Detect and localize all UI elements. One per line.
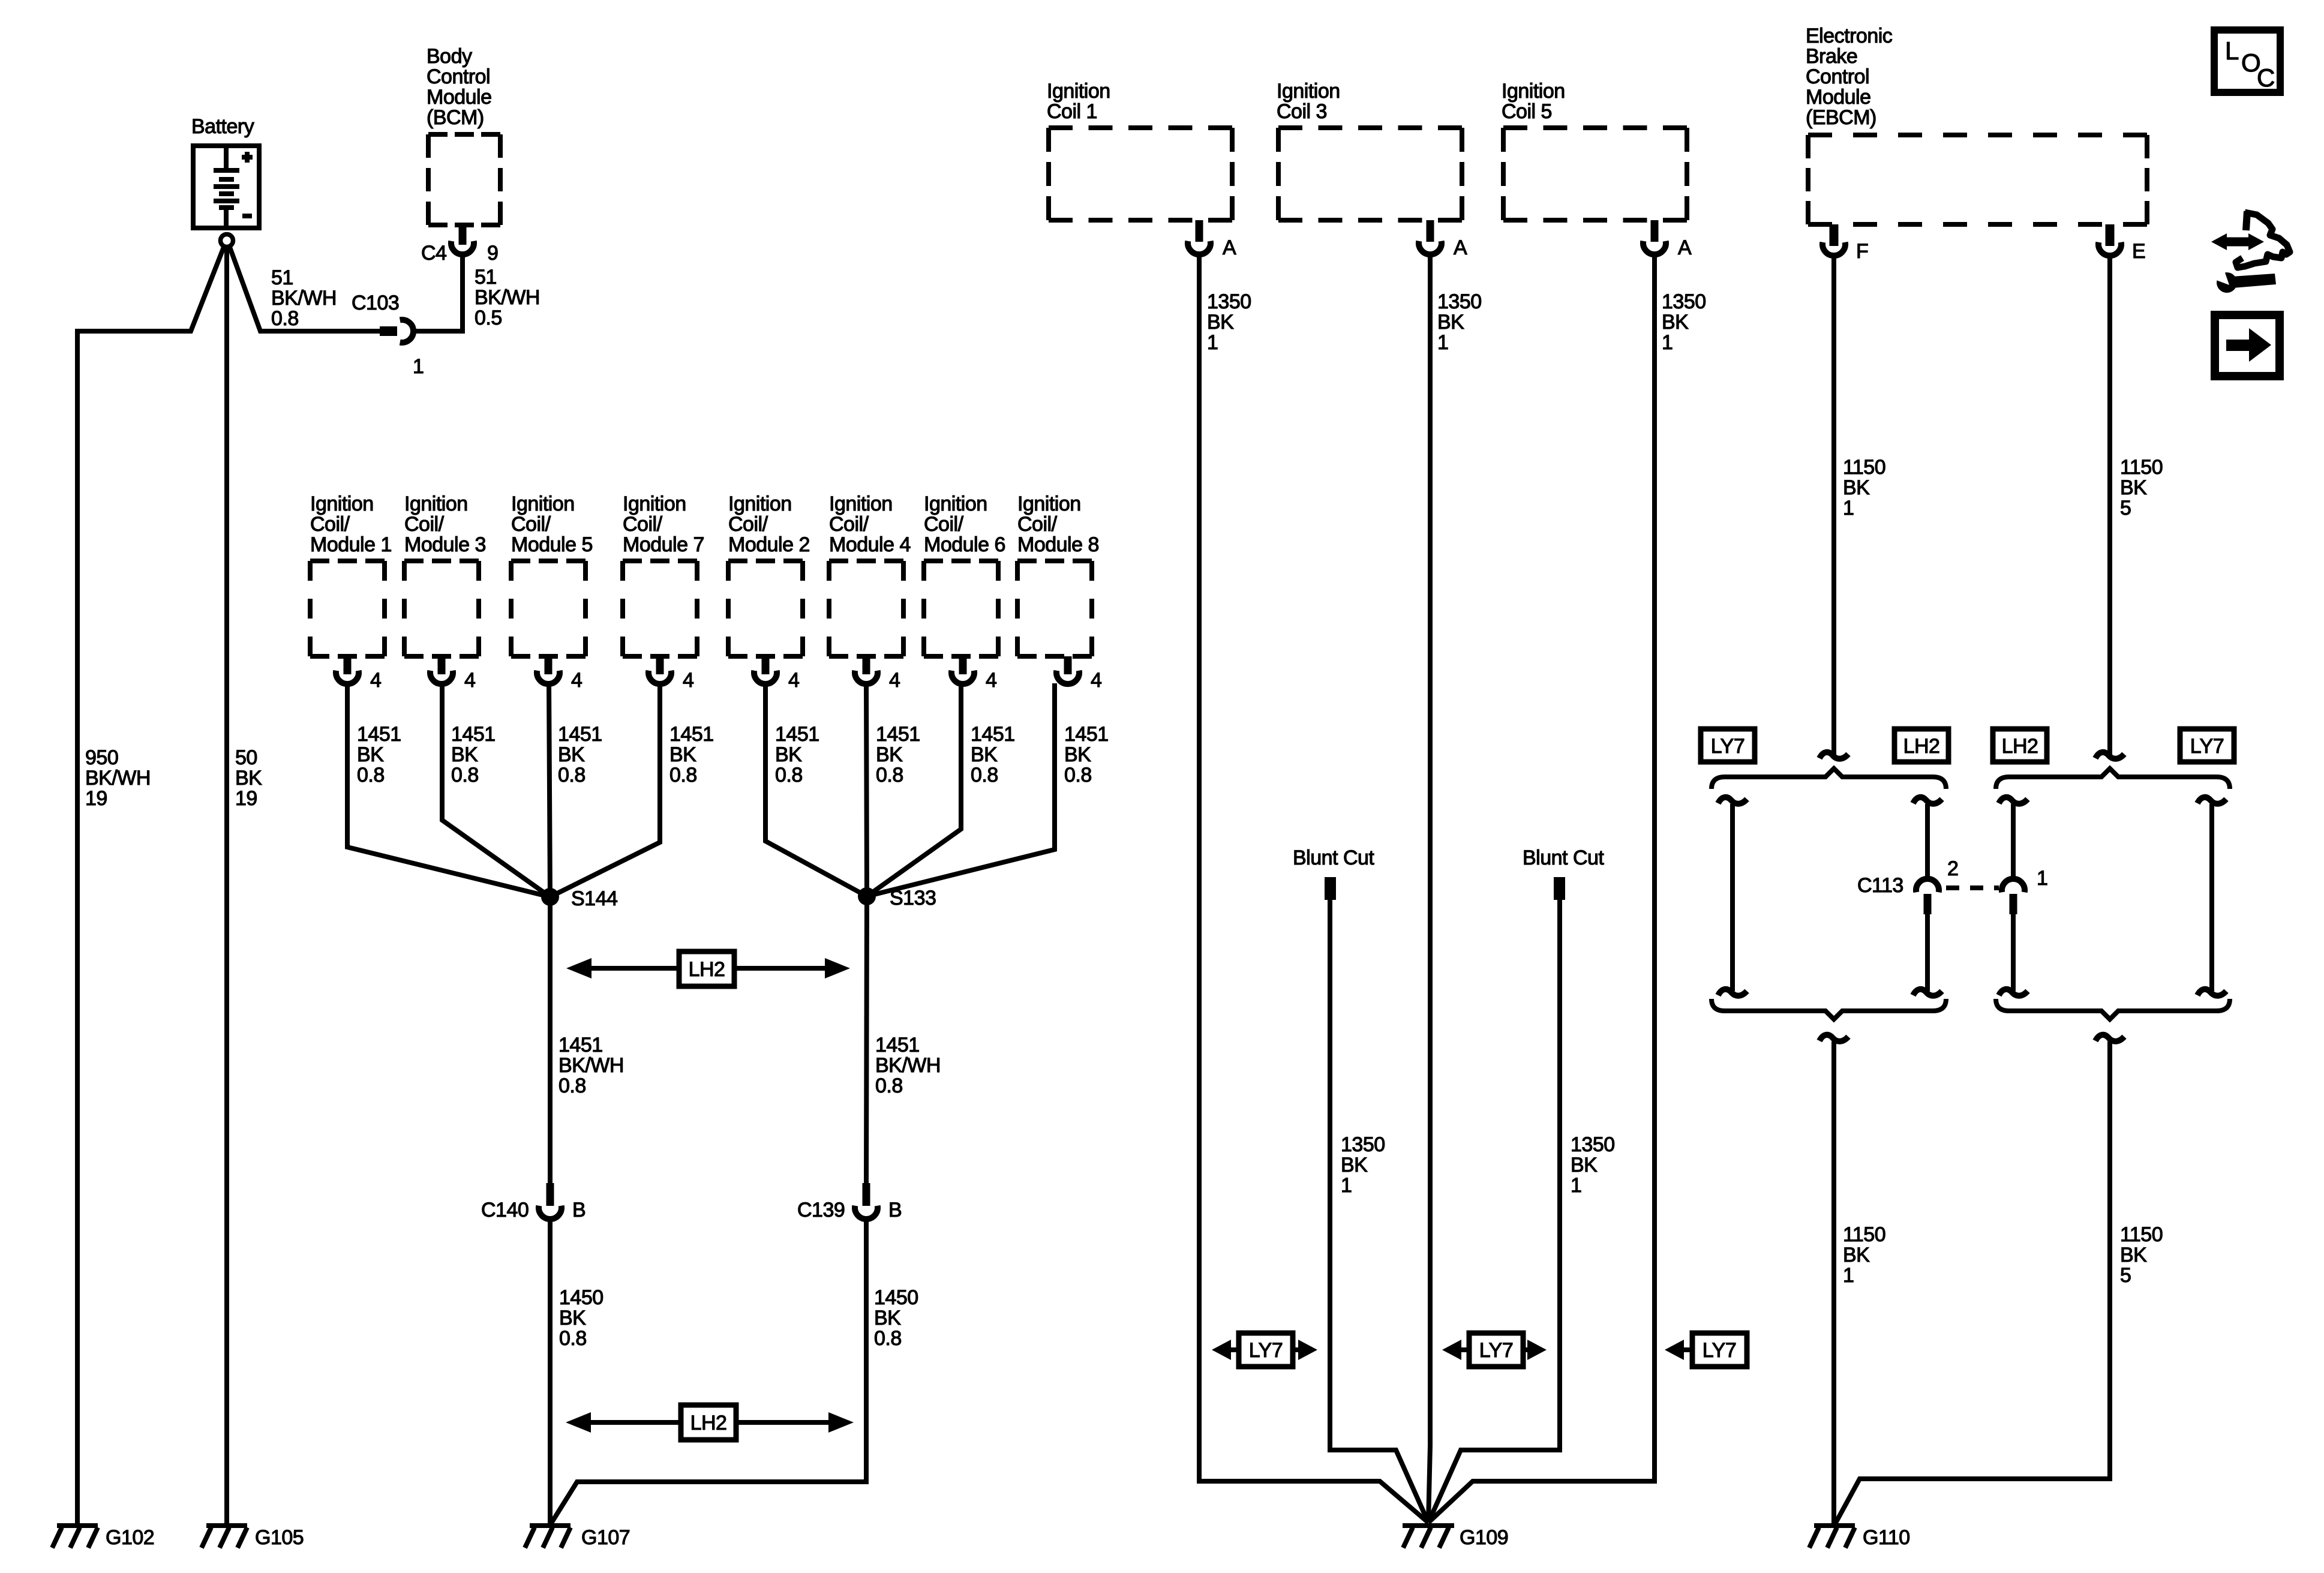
svg-text:Ignition: Ignition <box>1277 80 1340 103</box>
svg-text:1451: 1451 <box>971 723 1015 746</box>
svg-text:BK: BK <box>559 1307 586 1329</box>
wire coil 5 to G109 <box>1428 254 1655 1523</box>
svg-text:Body: Body <box>427 45 472 68</box>
label circuit 1451 BK 0.8 module 2 <box>775 723 819 786</box>
svg-text:1451: 1451 <box>451 723 496 746</box>
svg-text:A: A <box>1223 236 1236 259</box>
svg-text:C140: C140 <box>481 1199 529 1221</box>
svg-text:1451: 1451 <box>357 723 401 746</box>
svg-text:BK: BK <box>357 743 384 766</box>
LOC reference box <box>2214 30 2280 92</box>
pin 4 of module 6 <box>951 656 996 692</box>
label circuit 1150 BK 1 upper <box>1843 456 1885 520</box>
svg-text:1350: 1350 <box>1662 290 1706 313</box>
svg-text:G107: G107 <box>581 1526 630 1549</box>
svg-text:Ignition: Ignition <box>1502 80 1565 103</box>
svg-text:4: 4 <box>683 669 693 692</box>
svg-text:1450: 1450 <box>874 1286 918 1309</box>
svg-text:4: 4 <box>370 669 381 692</box>
svg-text:Module 4: Module 4 <box>829 533 911 556</box>
svg-text:BK: BK <box>1843 476 1870 499</box>
option brace top left group <box>1712 769 1946 789</box>
svg-text:BK: BK <box>1662 311 1689 334</box>
svg-text:LY7: LY7 <box>1711 735 1744 758</box>
wire S144 to C140 <box>548 897 553 1183</box>
svg-text:4: 4 <box>571 669 582 692</box>
svg-text:Module 7: Module 7 <box>623 533 704 556</box>
svg-text:C103: C103 <box>352 292 399 314</box>
wire coil 3 to G109 <box>1428 254 1430 1523</box>
battery positive terminal node <box>221 235 233 247</box>
svg-text:0.8: 0.8 <box>669 764 697 786</box>
svg-text:1150: 1150 <box>1843 1223 1885 1246</box>
pin 4 of module 3 <box>430 656 475 692</box>
svg-text:1: 1 <box>1341 1174 1352 1197</box>
svg-text:C113: C113 <box>1857 874 1903 897</box>
wire module 2 to S133 <box>765 683 867 896</box>
svg-text:1350: 1350 <box>1571 1133 1615 1156</box>
svg-text:BK: BK <box>669 743 696 766</box>
svg-text:19: 19 <box>85 787 107 810</box>
connector C113 pin 2 <box>1857 857 1958 914</box>
ground G110 <box>1809 1526 1910 1549</box>
svg-text:0.8: 0.8 <box>559 1074 586 1097</box>
svg-text:Coil/: Coil/ <box>924 513 964 536</box>
svg-text:Ignition: Ignition <box>1047 80 1110 103</box>
svg-text:Control: Control <box>427 65 490 88</box>
ignition coil 5 <box>1502 80 1687 220</box>
svg-text:0.8: 0.8 <box>876 764 903 786</box>
wire S133 to C139 <box>866 896 867 1183</box>
pin 4 of module 8 <box>1056 656 1101 692</box>
svg-text:1350: 1350 <box>1207 290 1251 313</box>
svg-text:1451: 1451 <box>669 723 714 746</box>
wire EBCM pin E to option bracket <box>2107 255 2112 755</box>
label circuit 1451 BK/WH 0.8 left <box>559 1034 624 1097</box>
svg-text:BK: BK <box>2120 1244 2147 1266</box>
squiggle below left bracket <box>1819 1035 1848 1041</box>
svg-text:Module: Module <box>427 86 492 109</box>
svg-text:1: 1 <box>2037 867 2047 890</box>
svg-text:A: A <box>1678 236 1692 259</box>
option brace top right group <box>1996 769 2230 789</box>
svg-text:Coil/: Coil/ <box>404 513 445 536</box>
svg-text:Ignition: Ignition <box>728 493 792 515</box>
svg-text:Module 3: Module 3 <box>404 533 486 556</box>
wire module 3 to S144 <box>442 683 550 897</box>
label circuit 1451 BK 0.8 module 7 <box>669 723 714 786</box>
label circuit 950 BK/WH 19 <box>85 746 151 810</box>
svg-text:Coil 1: Coil 1 <box>1047 100 1097 123</box>
electronic brake control module EBCM <box>1806 25 2147 224</box>
engine code box LH2 right group <box>1993 729 2047 762</box>
svg-text:1451: 1451 <box>558 723 602 746</box>
svg-text:BK: BK <box>558 743 585 766</box>
svg-text:L: L <box>2225 37 2239 65</box>
forward reference arrow box <box>2215 315 2280 376</box>
svg-text:S144: S144 <box>571 887 617 910</box>
svg-text:LH2: LH2 <box>1903 735 1940 758</box>
svg-text:19: 19 <box>235 787 257 810</box>
svg-text:LH2: LH2 <box>690 1412 727 1434</box>
svg-text:BK/WH: BK/WH <box>559 1054 624 1077</box>
connector C139 pin B <box>797 1183 902 1221</box>
splice S144 <box>541 887 617 910</box>
svg-text:4: 4 <box>986 669 996 692</box>
pin A of ignition coil 5 <box>1643 220 1692 259</box>
svg-text:1: 1 <box>1662 331 1673 354</box>
engine code box LH2 left group <box>1894 729 1948 762</box>
pin 4 of module 1 <box>336 656 381 692</box>
svg-text:1150: 1150 <box>1843 456 1885 479</box>
diagnostic double arrow and wrench icon <box>2208 211 2290 293</box>
wire battery to left ground branch <box>77 247 224 1524</box>
svg-text:Electronic: Electronic <box>1806 25 1893 47</box>
label circuit 1451 BK 0.8 module 6 <box>971 723 1015 786</box>
svg-text:4: 4 <box>889 669 900 692</box>
svg-text:(BCM): (BCM) <box>427 106 484 129</box>
svg-text:0.8: 0.8 <box>775 764 803 786</box>
svg-text:1150: 1150 <box>2120 1223 2163 1246</box>
option brace bottom left group <box>1712 999 1946 1019</box>
svg-text:Ignition: Ignition <box>310 493 374 515</box>
svg-text:LH2: LH2 <box>2002 735 2038 758</box>
squiggle below right bracket <box>2095 1035 2124 1041</box>
svg-text:Control: Control <box>1806 65 1869 88</box>
svg-text:F: F <box>1856 240 1868 263</box>
wire below C113 pin 2 <box>1913 914 1942 996</box>
svg-text:2: 2 <box>1947 857 1958 880</box>
pin 4 of module 7 <box>648 656 693 692</box>
dashed mating line C113 <box>1946 885 1999 890</box>
LH2 engine application arrow lower <box>566 1405 854 1440</box>
svg-text:1: 1 <box>1437 331 1448 354</box>
svg-text:G110: G110 <box>1863 1526 1910 1549</box>
svg-text:Coil 5: Coil 5 <box>1502 100 1552 123</box>
ground G109 <box>1403 1526 1508 1549</box>
LY7 option wire left <box>1718 797 1747 996</box>
ignition coil/module 2 <box>728 493 810 656</box>
splice S133 <box>858 887 936 909</box>
wire battery to C103 <box>230 247 380 331</box>
svg-text:LY7: LY7 <box>2190 735 2224 758</box>
svg-text:Module 6: Module 6 <box>924 533 1005 556</box>
wire module 7 to S144 <box>550 683 660 897</box>
svg-text:BK: BK <box>1571 1154 1598 1176</box>
label circuit 1350 BK 1 blunt cut 1 <box>1341 1133 1385 1197</box>
svg-text:1451: 1451 <box>875 1034 920 1056</box>
pin 4 of module 5 <box>537 656 582 692</box>
svg-text:1451: 1451 <box>1064 723 1109 746</box>
svg-text:0.8: 0.8 <box>875 1074 903 1097</box>
svg-text:BK/WH: BK/WH <box>271 287 337 310</box>
label circuit 51 BK/WH 0.8 <box>271 266 337 330</box>
engine code box LY7 left <box>1701 729 1755 762</box>
svg-text:G102: G102 <box>106 1526 154 1549</box>
svg-text:Ignition: Ignition <box>1017 493 1081 515</box>
svg-text:Module 5: Module 5 <box>511 533 593 556</box>
wire module 8 to S133 <box>867 683 1055 896</box>
svg-text:BK: BK <box>775 743 802 766</box>
label circuit 1451 BK 0.8 module 4 <box>876 723 920 786</box>
svg-text:1150: 1150 <box>2120 456 2163 479</box>
svg-text:Module: Module <box>1806 86 1871 109</box>
LY7 option wire right <box>2197 797 2226 996</box>
ignition coil/module 6 <box>924 493 1005 656</box>
svg-text:4: 4 <box>1091 669 1101 692</box>
connector C103 <box>352 292 424 378</box>
label circuit 1451 BK/WH 0.8 right <box>875 1034 941 1097</box>
svg-text:Module 1: Module 1 <box>310 533 392 556</box>
svg-text:BK/WH: BK/WH <box>85 767 151 789</box>
svg-text:51: 51 <box>271 266 293 289</box>
svg-text:0.8: 0.8 <box>558 764 585 786</box>
svg-text:9: 9 <box>487 242 498 265</box>
ground G102 <box>52 1526 154 1549</box>
svg-text:BK: BK <box>235 767 262 789</box>
svg-text:S133: S133 <box>890 887 936 909</box>
connector C140 pin B <box>481 1183 585 1221</box>
svg-text:1: 1 <box>413 355 424 378</box>
pin 4 of module 4 <box>855 656 900 692</box>
svg-text:Module 2: Module 2 <box>728 533 810 556</box>
pin A of ignition coil 1 <box>1188 220 1236 259</box>
svg-text:1350: 1350 <box>1437 290 1482 313</box>
svg-text:LY7: LY7 <box>1249 1339 1283 1362</box>
label circuit 1451 BK 0.8 module 3 <box>451 723 496 786</box>
svg-text:E: E <box>2132 240 2145 263</box>
svg-text:BK/WH: BK/WH <box>875 1054 941 1077</box>
svg-text:1: 1 <box>1207 331 1218 354</box>
svg-text:Coil/: Coil/ <box>1017 513 1058 536</box>
svg-text:BK: BK <box>1437 311 1464 334</box>
svg-text:LY7: LY7 <box>1479 1339 1513 1362</box>
svg-text:51: 51 <box>475 266 497 289</box>
svg-text:BK: BK <box>876 743 903 766</box>
svg-text:Coil/: Coil/ <box>829 513 869 536</box>
svg-text:BK: BK <box>1207 311 1234 334</box>
svg-text:1: 1 <box>1571 1174 1581 1197</box>
connector C113 pin 1 <box>2002 867 2047 914</box>
svg-text:C: C <box>2257 64 2275 92</box>
svg-text:4: 4 <box>788 669 799 692</box>
svg-text:C139: C139 <box>797 1199 845 1221</box>
ground G105 <box>202 1526 304 1549</box>
wire C103 to BCM pin 9 <box>413 254 463 331</box>
label circuit 1450 BK 0.8 left <box>559 1286 603 1350</box>
svg-text:B: B <box>572 1199 585 1221</box>
connector C4 pin 9 of BCM <box>421 225 498 265</box>
svg-text:Coil/: Coil/ <box>310 513 350 536</box>
wire module 6 to S133 <box>867 683 961 896</box>
svg-text:BK: BK <box>874 1307 901 1329</box>
svg-text:0.8: 0.8 <box>271 307 299 330</box>
ignition coil/module 7 <box>623 493 704 656</box>
wire left bracket to G110 <box>1831 1041 1836 1524</box>
wire C139 to G107 <box>550 1219 866 1525</box>
label circuit 1350 BK 1 coil 3 <box>1437 290 1482 354</box>
svg-text:1350: 1350 <box>1341 1133 1385 1156</box>
svg-text:Ignition: Ignition <box>829 493 893 515</box>
svg-text:Module 8: Module 8 <box>1017 533 1099 556</box>
LH2 option wire left into C113 pin 2 <box>1913 797 1942 877</box>
blunt cut wire 1 <box>1293 846 1428 1523</box>
label circuit 1451 BK 0.8 module 1 <box>357 723 401 786</box>
wire module 1 to S144 <box>347 683 550 897</box>
svg-text:Coil/: Coil/ <box>728 513 768 536</box>
LY7 engine application arrow 1 <box>1212 1333 1317 1367</box>
svg-text:BK: BK <box>2120 476 2147 499</box>
svg-text:1450: 1450 <box>559 1286 603 1309</box>
svg-text:Ignition: Ignition <box>511 493 575 515</box>
ignition coil/module 1 <box>310 493 392 656</box>
ignition coil/module 5 <box>511 493 593 656</box>
ignition coil/module 4 <box>829 493 911 656</box>
label circuit 1451 BK 0.8 module 8 <box>1064 723 1109 786</box>
svg-text:1: 1 <box>1843 1264 1854 1287</box>
ground G107 <box>525 1526 630 1549</box>
svg-text:BK: BK <box>1341 1154 1368 1176</box>
svg-text:5: 5 <box>2120 497 2131 520</box>
option brace bottom right group <box>1996 999 2230 1019</box>
label circuit 1450 BK 0.8 right <box>874 1286 918 1350</box>
ignition coil/module 3 <box>404 493 486 656</box>
svg-text:LY7: LY7 <box>1703 1339 1736 1362</box>
svg-text:5: 5 <box>2120 1264 2131 1287</box>
svg-text:B: B <box>888 1199 902 1221</box>
wire coil 1 to G109 <box>1199 254 1428 1523</box>
svg-text:Ignition: Ignition <box>404 493 468 515</box>
wire end squiggle F <box>1819 752 1848 759</box>
ignition coil 1 <box>1047 80 1232 220</box>
blunt cut wire 2 <box>1428 846 1604 1523</box>
label circuit 1150 BK 5 lower <box>2120 1223 2163 1287</box>
svg-text:0.8: 0.8 <box>1064 764 1092 786</box>
svg-text:1: 1 <box>1843 497 1854 520</box>
svg-text:Ignition: Ignition <box>623 493 686 515</box>
battery B1 <box>191 115 259 228</box>
LY7 engine application arrow 2 <box>1442 1333 1547 1367</box>
svg-text:Brake: Brake <box>1806 45 1857 68</box>
engine code box LY7 right <box>2180 729 2234 762</box>
svg-text:Blunt Cut: Blunt Cut <box>1293 846 1374 869</box>
wire right bracket to G110 <box>1834 1041 2110 1525</box>
LY7 engine application arrow 3 <box>1665 1333 1747 1367</box>
wire EBCM pin F to option bracket <box>1831 255 1836 755</box>
label circuit 1350 BK 1 coil 5 <box>1662 290 1706 354</box>
svg-text:Blunt Cut: Blunt Cut <box>1523 846 1604 869</box>
label circuit 50 BK 19 <box>235 746 262 810</box>
svg-text:C4: C4 <box>421 242 446 265</box>
pin E of EBCM <box>2098 224 2145 263</box>
svg-text:G105: G105 <box>255 1526 304 1549</box>
label circuit 1150 BK 1 lower <box>1843 1223 1885 1287</box>
ignition coil/module 8 <box>1017 493 1099 656</box>
body control module BCM <box>427 45 500 225</box>
svg-text:A: A <box>1454 236 1467 259</box>
pin F of EBCM <box>1822 224 1868 263</box>
svg-text:0.5: 0.5 <box>475 307 502 329</box>
svg-text:BK: BK <box>1064 743 1091 766</box>
svg-text:G109: G109 <box>1460 1526 1508 1549</box>
svg-text:Ignition: Ignition <box>924 493 987 515</box>
svg-text:(EBCM): (EBCM) <box>1806 106 1876 129</box>
svg-text:4: 4 <box>464 669 475 692</box>
wire end squiggle E <box>2095 752 2124 759</box>
LH2 option wire right from C113 pin 1 <box>1999 797 2028 996</box>
wire C140 to G107 <box>548 1219 553 1524</box>
ignition coil 3 <box>1277 80 1462 220</box>
pin A of ignition coil 3 <box>1419 220 1467 259</box>
pin 4 of module 2 <box>754 656 799 692</box>
label circuit 1451 BK 0.8 module 5 <box>558 723 602 786</box>
svg-text:1451: 1451 <box>775 723 819 746</box>
wire module 5 to S144 <box>549 683 550 897</box>
svg-text:0.8: 0.8 <box>451 764 479 786</box>
label circuit 51 BK/WH 0.5 <box>475 266 540 329</box>
svg-text:1451: 1451 <box>876 723 920 746</box>
svg-text:0.8: 0.8 <box>559 1327 587 1350</box>
label circuit 1350 BK 1 coil 1 <box>1207 290 1251 354</box>
svg-text:Coil/: Coil/ <box>623 513 663 536</box>
svg-text:Coil/: Coil/ <box>511 513 551 536</box>
svg-text:LH2: LH2 <box>689 958 725 981</box>
svg-text:BK/WH: BK/WH <box>475 286 540 309</box>
svg-text:50: 50 <box>235 746 257 769</box>
svg-text:BK: BK <box>451 743 478 766</box>
svg-text:Battery: Battery <box>191 115 254 138</box>
svg-text:BK: BK <box>971 743 998 766</box>
label circuit 1350 BK 1 blunt cut 2 <box>1571 1133 1615 1197</box>
svg-text:0.8: 0.8 <box>874 1327 902 1350</box>
wire battery to G105 <box>224 248 229 1524</box>
wire module 4 to S133 <box>866 683 867 896</box>
svg-text:Coil 3: Coil 3 <box>1277 100 1327 123</box>
svg-text:1451: 1451 <box>559 1034 603 1056</box>
label circuit 1150 BK 5 upper <box>2120 456 2163 520</box>
svg-text:0.8: 0.8 <box>357 764 385 786</box>
LH2 engine application arrow upper <box>566 951 850 986</box>
svg-text:950: 950 <box>85 746 118 769</box>
svg-text:0.8: 0.8 <box>971 764 998 786</box>
svg-text:BK: BK <box>1843 1244 1870 1266</box>
